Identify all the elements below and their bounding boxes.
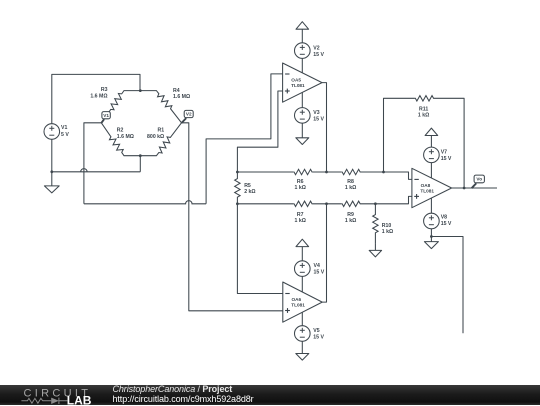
svg-text:R4: R4 [173,88,180,94]
ground below R10 [374,244,376,251]
node bridge top junction [139,89,142,92]
wire OA8 output [452,187,497,189]
resistor R2 [101,123,140,156]
svg-text:15 V: 15 V [441,156,452,162]
svg-text:2 kΩ: 2 kΩ [244,189,255,195]
svg-text:15 V: 15 V [314,269,325,275]
footer bar [0,385,540,406]
CircuitLab logo [0,385,110,406]
resistor R7 [293,201,313,206]
wire up to OA5 inverting input [206,74,283,204]
voltage source V8 15V [424,213,440,229]
node flag Vo [472,183,477,188]
voltage source V1 5V [44,124,60,140]
resistor R5 [235,172,240,204]
node flag V2 [182,118,187,123]
svg-text:V2: V2 [313,46,319,52]
node OA6 feedback junction [325,202,328,205]
power flag above V4 [301,247,303,261]
power flag above V2 [301,29,303,43]
wire bottom row middle [313,203,342,205]
ground below V5 [301,341,303,353]
svg-text:V7: V7 [441,150,447,156]
wire top row middle [313,171,342,173]
node V1 minus junction [50,170,53,173]
wire V7 to OA8 positive supply [430,163,432,178]
ground below V1 [51,172,53,186]
wire top row left [237,171,293,173]
svg-text:R3: R3 [101,87,108,93]
svg-text:OA8: OA8 [421,183,431,188]
svg-text:1 kΩ: 1 kΩ [295,218,306,224]
svg-text:1 kΩ: 1 kΩ [418,113,429,119]
node R10 junction [374,202,377,205]
resistor R11 [415,96,434,101]
resistor R1 [140,123,181,156]
svg-text:V8: V8 [441,215,447,221]
voltage source V5 15V [295,326,311,342]
svg-text:R5: R5 [244,183,251,189]
svg-text:LAB: LAB [67,393,92,406]
svg-text:V1: V1 [61,125,67,131]
svg-text:Vo: Vo [476,177,482,182]
svg-text:15 V: 15 V [313,116,324,122]
wire V8 bottom [430,229,432,242]
ground below V3 [301,123,303,138]
wire bridge V2 node to OA6 non-inverting input [182,123,283,311]
node V8 ground junction [430,235,433,238]
ground below V8 [424,242,438,249]
svg-text:TL081: TL081 [420,188,434,193]
power flag above V7 [430,136,432,148]
logo schematic doodle [21,397,67,403]
node OA5 feedback junction [325,171,328,174]
wire to R11 [384,98,415,172]
wire bottom row to OA8 non-inverting input [361,196,412,203]
wire V1 top to bridge top [52,74,140,123]
resistor R10 [373,204,378,244]
node R5 top [236,171,239,174]
resistor R3 [101,91,140,123]
svg-text:1 kΩ: 1 kΩ [382,229,393,235]
svg-text:V4: V4 [314,263,320,269]
svg-text:OA6: OA6 [292,297,302,302]
wire to OA5 with hop over V2 wire [84,201,206,204]
svg-text:TL081: TL081 [291,83,305,88]
svg-text:5 V: 5 V [61,132,69,138]
svg-text:R10: R10 [382,223,392,229]
wire bottom row left [237,203,293,205]
op-amp OA6 TL081 [283,282,322,322]
svg-text:15 V: 15 V [313,334,324,340]
svg-text:800 kΩ: 800 kΩ [147,134,164,140]
svg-text:V1: V1 [103,113,109,118]
resistor R6 [293,169,313,174]
svg-text:R2: R2 [117,128,124,134]
resistor R8 [342,169,361,174]
svg-text:TL081: TL081 [291,303,305,308]
svg-text:15 V: 15 V [441,221,452,227]
svg-text:1 kΩ: 1 kΩ [345,218,356,224]
svg-text:1.6 MΩ: 1.6 MΩ [90,94,107,100]
wire R11 to output [434,98,464,188]
logo diode [51,397,59,403]
wire OA5 output feedback [322,83,327,172]
op-amp OA5 TL081 [283,63,322,102]
svg-text:V3: V3 [313,110,319,116]
op-amp OA8 TL081 [412,168,452,207]
footer credit text [113,385,254,405]
node R5 bottom [236,202,239,205]
svg-text:1 kΩ: 1 kΩ [295,185,306,191]
voltage source V3 15V [295,108,311,124]
svg-text:15 V: 15 V [313,52,324,58]
svg-text:V5: V5 [313,328,319,334]
node flag V1 [101,119,104,123]
voltage source V7 15V [424,147,440,163]
svg-text:R11: R11 [419,106,428,112]
svg-text:1.6 MΩ: 1.6 MΩ [117,134,134,140]
svg-text:OA5: OA5 [291,77,301,82]
svg-text:1 kΩ: 1 kΩ [345,185,356,191]
wire OA6 output feedback [322,204,326,302]
wire R5 top to OA5 non-inverting input [237,91,282,172]
voltage source V4 15V [295,261,311,277]
wire top row to OA8 inverting input [361,172,412,179]
wire OA5 negative supply to V3 [301,92,303,107]
wire V1 bottom [51,139,53,172]
wire V4 to OA6 positive supply [301,276,303,292]
svg-text:R1: R1 [158,128,165,134]
node output junction [463,187,466,190]
wire OA8 negative supply to V8 [430,198,432,213]
resistor R9 [342,201,361,206]
voltage source V2 15V [295,43,311,59]
wire to V1 minus with hop [52,169,141,172]
resistor R4 [140,91,181,123]
wire R5 bottom to OA6 inverting input [237,204,282,294]
wire V2 to OA5 positive supply [301,58,303,72]
wire bridge bottom down [139,156,141,172]
node bridge bottom junction [139,154,142,157]
svg-text:V2: V2 [186,112,192,117]
node R11 junction [382,171,385,174]
wire from V8 junction down right [431,237,463,334]
wire bridge V1 node down [84,123,101,204]
svg-text:1.6 MΩ: 1.6 MΩ [173,94,190,100]
wire OA6 negative supply to V5 [301,312,303,325]
